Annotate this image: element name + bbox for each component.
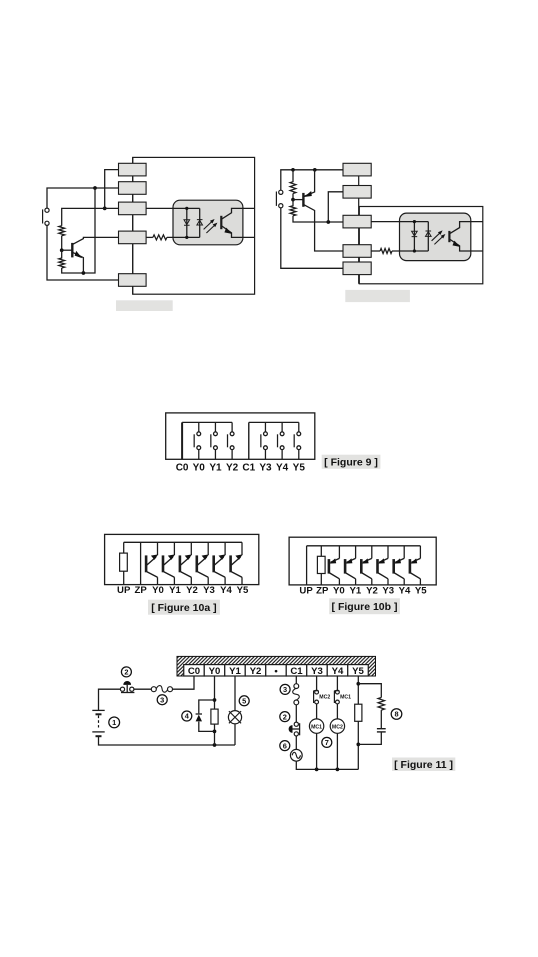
terminal cell Y5 [348,665,369,677]
svg-text:Y3: Y3 [259,462,272,473]
circled 3 [157,695,167,705]
wire R3 to opto cathode rail [167,236,200,238]
ZP wire lower (10b) [320,574,322,585]
relay contact Y1 [211,422,218,459]
phototransistor collector out (right) [449,222,482,234]
svg-text:MC1: MC1 [340,695,351,701]
junction Y0 lower [213,730,217,734]
resistor load Y5 [355,704,362,721]
relay contact Y0 [194,422,201,459]
transistor Q2 emitter with arrow to top rail [303,170,314,197]
snubber bottom wire [358,732,381,744]
resistor load (item 4 group) [211,709,218,724]
terminal cell C1 [286,665,307,677]
wire switch-bottom to terminal T5 [47,225,119,280]
svg-text:MC2: MC2 [319,695,330,701]
svg-text:2: 2 [124,668,128,677]
phototransistor base bar (right) [448,231,450,242]
resistor R2 (lower) [59,250,84,273]
svg-text:Y4: Y4 [276,462,289,473]
transistor Y3 (10a) [197,542,209,584]
wire C0 down-left [173,676,194,689]
base wire [62,249,72,251]
circled 5 [239,696,249,706]
C1 bus wire [249,421,299,423]
transistor Y2 (10a) [180,542,192,584]
opto LED D4 (up) [426,231,432,236]
junction emitter node [82,271,86,275]
wire node A down to emitter rail [83,188,95,273]
wire T3 rail left [62,208,119,225]
switch S1 blade [42,209,44,223]
transistor Q1 collector to T4 [72,237,118,244]
wire fuse2 to pushbutton2 [295,705,297,722]
wire switch-top to terminal T2 [47,188,119,208]
wire resistor to rail [214,724,216,745]
wire Y5 down [357,676,359,704]
svg-text:MC1: MC1 [311,724,322,730]
svg-text:[ Figure 11 ]: [ Figure 11 ] [394,759,453,771]
svg-text:C0: C0 [188,666,200,677]
transistor Y4 (10a) [214,542,226,584]
ZP wire upper (10b) [320,546,322,557]
coil MC1 (item 7) [309,719,323,733]
terminal cell Y4 [327,665,348,677]
terminal chain wire (left) [132,157,134,294]
terminal chain wire (right) [358,176,360,284]
fuse F1 (item 3) [151,686,172,693]
resistor ZP (10b) [317,556,325,573]
svg-text:MC2: MC2 [332,724,343,730]
wire R1 to base node [61,236,63,251]
optocoupler U2 body (right) [400,213,471,261]
diode branch wires [199,700,215,731]
opto LED branch rails [187,208,200,237]
wire switch-top to terminal T1 (right) [281,170,343,190]
terminal box T3 (right) [343,215,371,228]
circled 1 [109,717,120,728]
circled 8 [391,709,402,720]
terminal cell Y1 [225,665,246,677]
light arrow 4 [434,236,443,245]
relay contact Y2 [228,422,235,459]
svg-text:Y3: Y3 [311,666,323,677]
opto LED D1 (down) [184,220,190,225]
NC contact MC1 (on Y4) [334,690,339,704]
svg-text:[ Figure 10a ]: [ Figure 10a ] [151,602,216,614]
switch S1 contact circles [45,208,49,212]
circled 3 right [280,684,290,694]
opto LED branch rails (right) [414,222,428,251]
light arrow 3 [432,232,441,241]
relay contact Y3 [261,422,268,459]
svg-text:Y5: Y5 [293,462,306,473]
svg-text:UP: UP [117,585,131,596]
terminal box T2 (right) [343,186,371,199]
circled 6 [280,741,290,751]
phototransistor emitter out with arrow (right) [449,239,482,251]
caption [ Figure 10b ] [329,598,400,614]
circled 2 [121,667,131,677]
transistor Y3 (10b) [378,546,389,585]
base node dot (right) [291,198,295,202]
terminal cell Y0 [204,665,225,677]
svg-text:Y2: Y2 [366,586,378,597]
junction dots on LED rails (right) [413,220,416,223]
wire Y4 down [336,676,338,690]
battery B1 (item 1) [92,710,104,736]
Figure 9 relay output box [166,413,315,459]
svg-text:2: 2 [283,712,287,721]
wire battery to bottom rail [99,736,236,745]
transistor Q1 emitter with arrow [72,252,83,273]
wire T4 to resistor R3 [146,236,153,238]
base wire (right) [293,199,303,201]
svg-text:3: 3 [283,685,287,694]
terminal box T1 (left) [119,163,147,176]
PLC outer box (right input circuit) [359,207,483,284]
transistor Y1 (10a) [163,542,175,584]
wire AC to right rail [296,761,358,769]
terminal strip hatched band [177,656,376,676]
svg-text:[ Figure 9 ]: [ Figure 9 ] [324,456,378,468]
transistor Y5 (10b) [410,546,421,585]
caption [ Figure 11 ] [392,758,455,771]
circled 7 [322,737,332,747]
Figure 10b transistor output box [289,537,436,585]
resistor R5 (lower right) [290,200,343,222]
transistor Y4 (10b) [394,546,405,585]
terminal box T4 (right) [343,245,371,258]
resistor R4 (upper right) [290,170,296,200]
terminal cell Y3 [307,665,328,677]
svg-text:3: 3 [160,695,164,704]
relay contact Y4 [278,422,285,459]
svg-text:Y0: Y0 [152,585,164,596]
caption bar (left, blank) [116,300,173,311]
transistor Q1 base bar [71,243,73,258]
svg-text:1: 1 [112,718,116,727]
svg-text:C1: C1 [290,666,303,677]
light arrow 1 [204,221,213,230]
NC contact MC2 (on Y3) [314,690,319,704]
wire switch-bottom to T5 (right) [281,208,343,268]
snubber capacitor [377,729,386,732]
relay contact Y5 [294,422,301,459]
wire T4 to resistor R6 [371,250,380,252]
svg-text:Y2: Y2 [186,585,198,596]
svg-text:Y4: Y4 [220,585,232,596]
light arrow 2 [206,225,215,234]
C0 common bar [181,422,183,459]
UP wire lower [123,571,125,584]
circled 2 right [280,712,290,722]
svg-text:Y4: Y4 [332,666,344,677]
terminal box T5 (left) [119,274,147,287]
junction Y5 lower [356,743,360,747]
svg-text:Y2: Y2 [250,666,262,677]
resistor R3 [153,235,167,240]
terminal box T4 (left) [119,231,147,244]
svg-text:ZP: ZP [316,586,329,597]
C1 common bar [248,422,250,459]
resistor R1 (upper) [59,226,65,236]
wire Y0 down [214,676,216,709]
phototransistor emitter out with arrow [221,226,254,238]
wire Y1 down to lamp [234,676,236,711]
PLC outer box (left input circuit) [133,157,255,294]
junction Y4 rail [336,768,340,772]
phototransistor base bar [220,216,222,229]
snubber wire mid [380,710,382,728]
fuse F2 (item 3 right) [293,684,300,705]
diode D5 (item 4) [196,714,202,721]
svg-text:Y5: Y5 [237,585,249,596]
terminal cell dot [266,665,287,677]
wire pushbutton2 to AC source [295,736,297,750]
caption bar (right, blank) [345,290,410,302]
junction Y5 top [356,682,360,686]
wire MC1 to rail [316,733,318,769]
wire Y5 resistor to rail [357,721,359,769]
wire fuse to pushbutton [134,688,151,690]
junction on T3 wire [103,207,107,211]
junction R4 top [291,168,295,172]
wire Y3 down [316,676,318,690]
bus wire (10b) [307,545,421,547]
svg-text:Y2: Y2 [226,462,239,473]
ZP wire (10a) [140,542,142,584]
terminal cell C0 [184,665,205,677]
svg-text:Y0: Y0 [333,586,345,597]
caption [ Figure 10a ] [148,600,220,615]
svg-text:Y5: Y5 [352,666,364,677]
AC source (item 6) [290,749,302,761]
wire T3 to opto anode rail [146,207,200,209]
wire T3 to opto anode rail (right) [371,221,428,223]
terminal box T2 (left) [119,182,147,195]
snubber branch top wire [358,684,381,698]
circled 4 [182,711,192,721]
wire terminal T2 down (right) [328,192,343,222]
coil MC2 (item 7) [330,719,344,733]
svg-text:Y1: Y1 [209,462,222,473]
junction node A [93,186,97,190]
wire MC2 to rail [336,733,338,769]
phototransistor collector out [221,208,254,219]
wire contact to coil MC2 [336,704,338,719]
wire R6 to opto cathode rail [392,250,428,252]
transistor Y5 (10a) [231,542,243,584]
terminal box T5 (right) [343,262,371,275]
svg-text:Y1: Y1 [229,666,241,677]
resistor UP (10a) [120,553,128,571]
junction Y3 rail [315,768,319,772]
svg-text:Y0: Y0 [193,462,206,473]
wire C1 down [295,676,297,684]
junction on T3 wire (right) [326,220,330,224]
junction emitter top [313,168,317,172]
svg-text:5: 5 [242,696,246,705]
svg-text:Y3: Y3 [382,586,394,597]
svg-text:Y3: Y3 [203,585,215,596]
svg-text:ZP: ZP [134,585,147,596]
lamp L1 (item 5) [228,711,241,724]
terminal box T1 (right) [343,163,371,176]
svg-text:Y1: Y1 [169,585,181,596]
transistor Y2 (10b) [361,546,372,585]
caption [ Figure 9 ] [322,455,381,469]
svg-text:Y0: Y0 [209,666,221,677]
svg-text:8: 8 [394,710,398,719]
opto LED D2 (up) [197,220,203,225]
svg-text:Y4: Y4 [399,586,411,597]
snubber resistor (item 8) [378,698,384,711]
opto LED D3 (down) [412,231,418,236]
Figure 10a transistor output box [105,534,259,584]
wire pushbutton to battery [99,689,121,710]
transistor Q2 collector to T4 (right) [303,204,343,251]
transistor Y0 (10a) [146,542,158,584]
svg-text:C1: C1 [242,462,255,473]
transistor Y1 (10b) [345,546,356,585]
transistor Q2 base bar [302,193,304,207]
UP wire (10b) [306,546,308,585]
transistor Y0 (10b) [329,546,340,585]
junction dots on LED rails [185,207,188,210]
svg-text:Y5: Y5 [415,586,427,597]
terminal box T3 (left) [119,202,147,215]
svg-text:7: 7 [325,738,329,747]
svg-text:UP: UP [299,586,313,597]
switch S2 blade [275,192,277,206]
junction Y0 bottom [213,743,217,747]
junction Y0 upper [213,698,217,702]
base node dot [60,248,64,252]
pushbutton PB1 (item 2) [120,681,134,692]
pushbutton PB2 (item 2 right) [289,722,300,736]
C0 bus wire [182,421,232,423]
svg-text:Y1: Y1 [350,586,362,597]
wire contact to coil MC1 [316,704,318,719]
svg-text:6: 6 [283,741,287,750]
UP wire upper [123,542,125,553]
resistor R6 [380,249,392,254]
terminal cell Y2 [245,665,266,677]
svg-text:C0: C0 [176,462,189,473]
wire lamp to rail [234,724,236,745]
optocoupler U1 body (left) [173,200,243,245]
switch S2 contact circles [279,190,283,194]
wire terminal T1 to T3 rail [105,170,119,209]
bus wire (10a) [124,541,242,543]
svg-text:[ Figure 10b ]: [ Figure 10b ] [332,601,398,613]
